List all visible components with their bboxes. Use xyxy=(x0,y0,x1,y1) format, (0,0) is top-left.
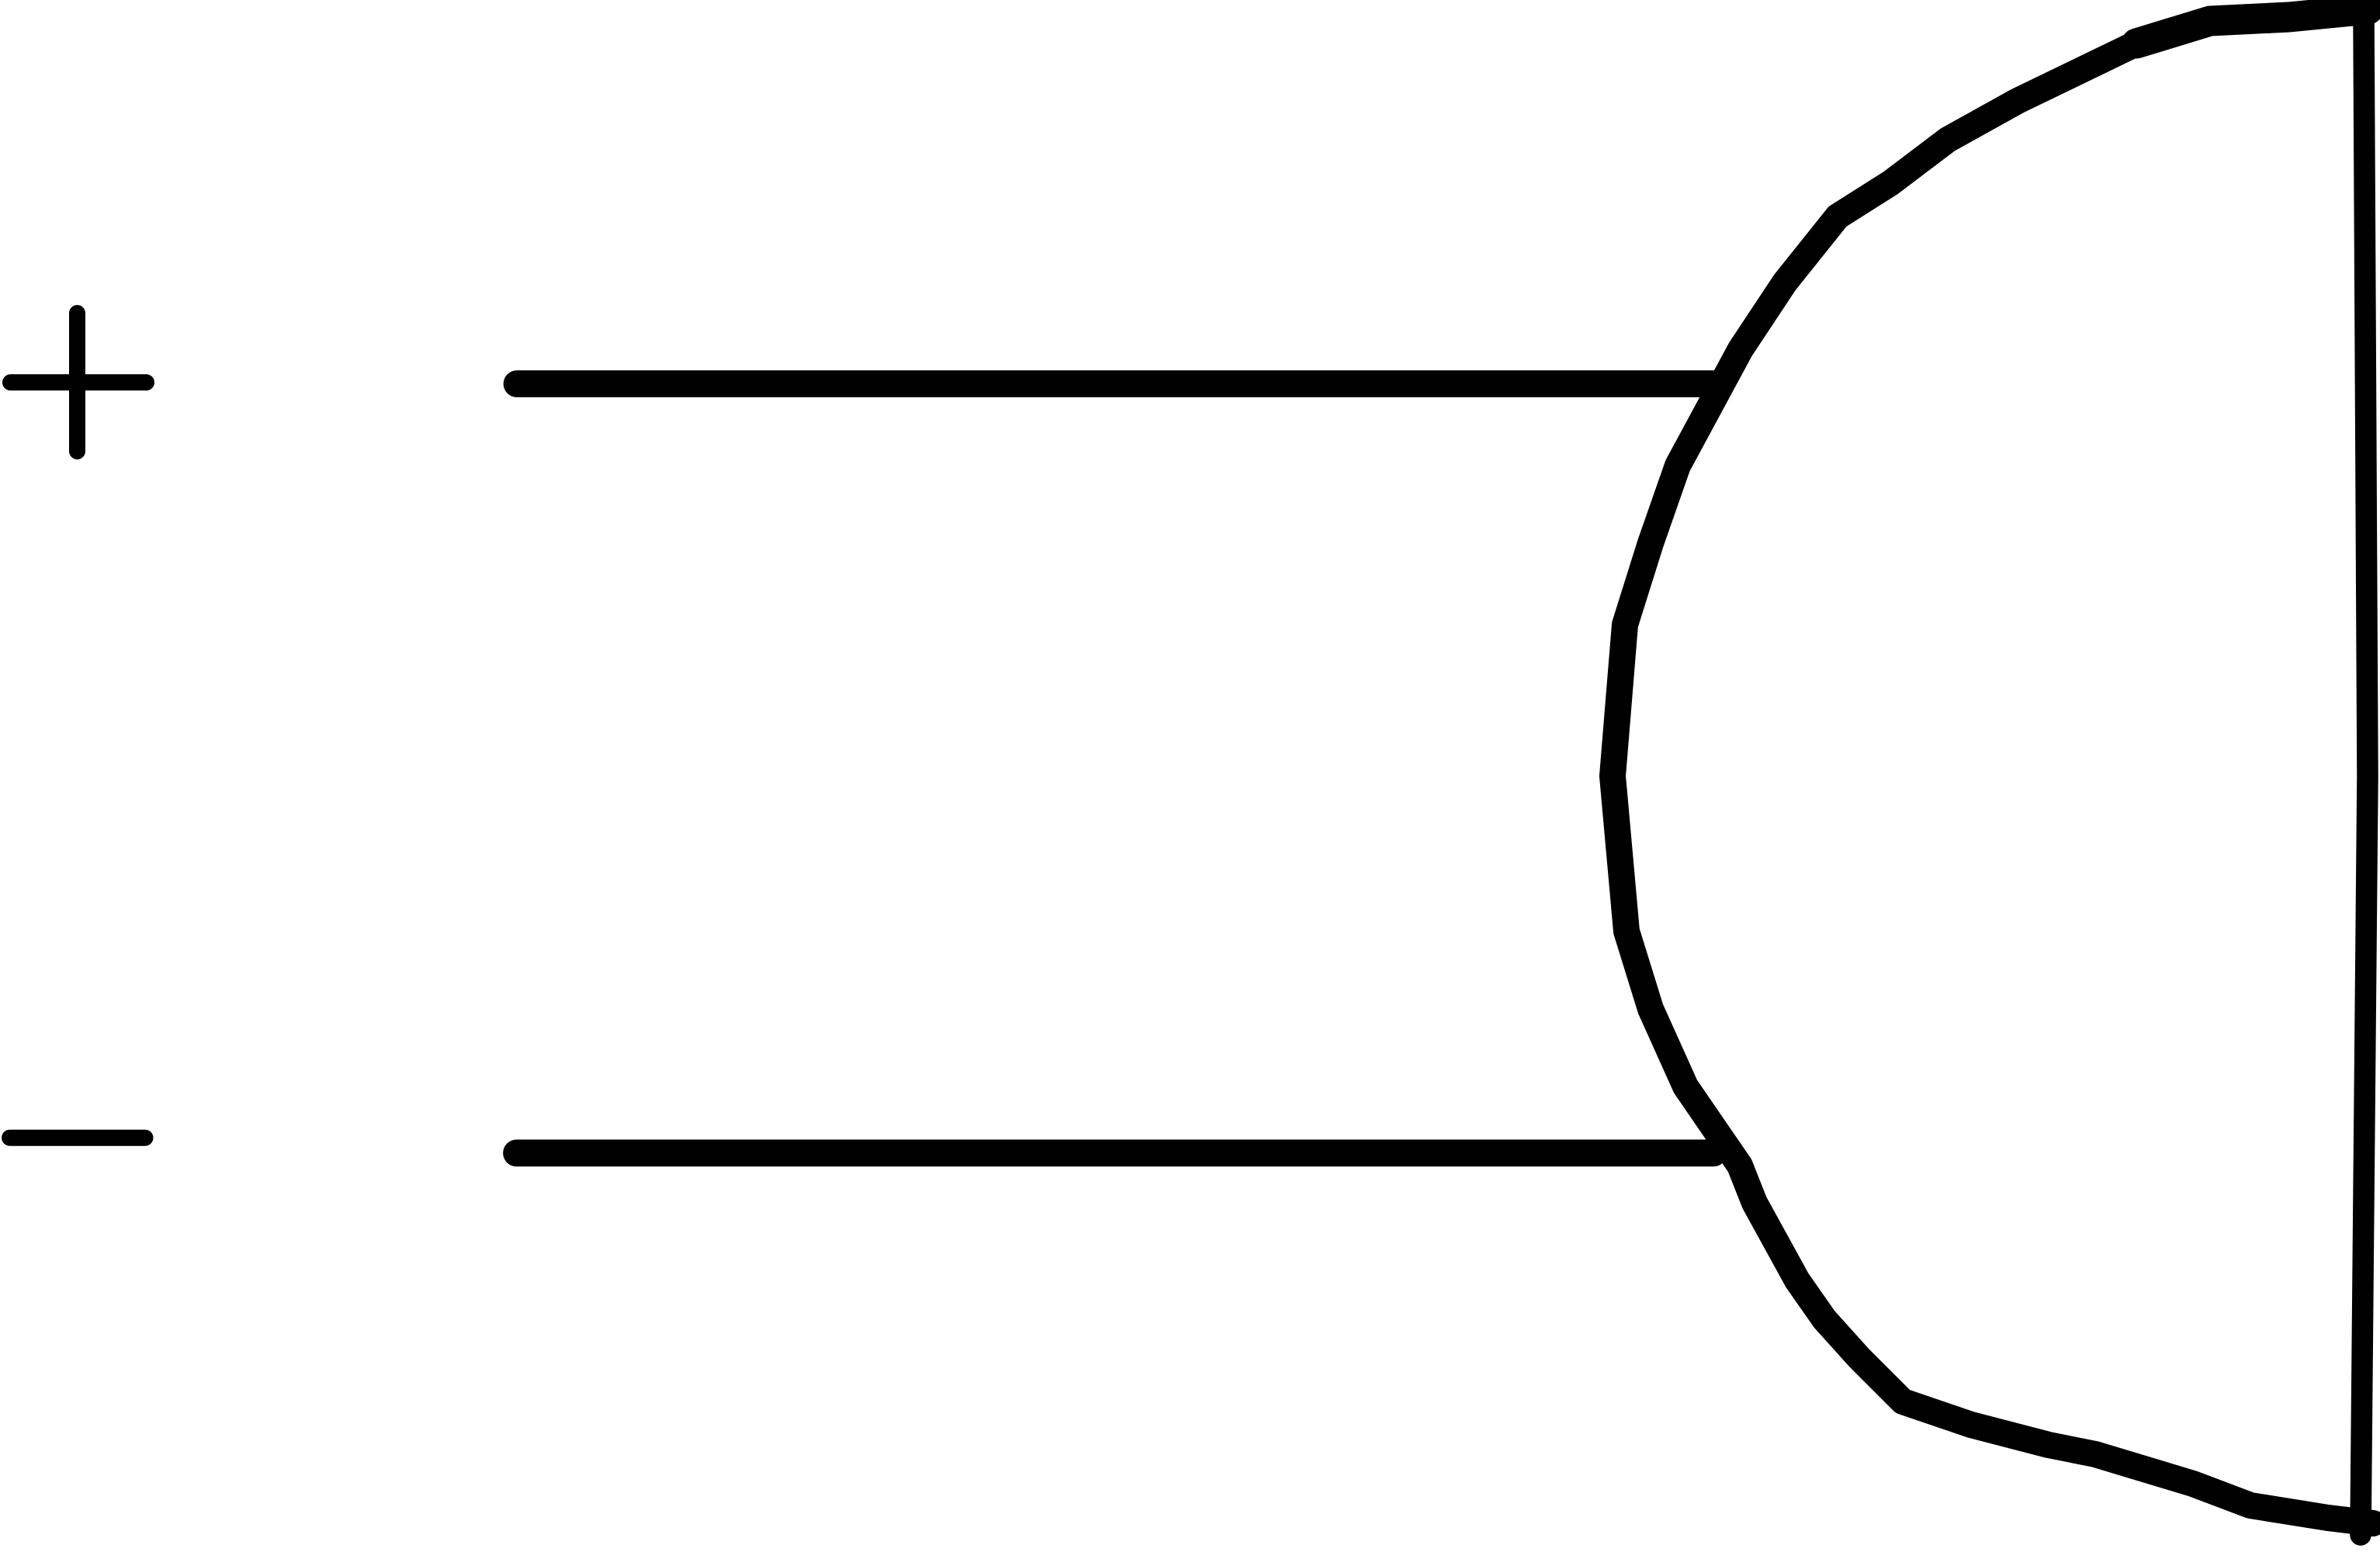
bell flat side (vertical line) xyxy=(2361,17,2368,1535)
wire positive lead xyxy=(517,370,1713,397)
bell B1 dome arc (top-right thick stretch) xyxy=(2136,9,2368,43)
plus terminal label xyxy=(11,314,147,452)
bell B1 dome arc xyxy=(1613,43,2373,1523)
minus terminal label xyxy=(10,1130,145,1146)
wire negative lead xyxy=(517,1140,1713,1167)
